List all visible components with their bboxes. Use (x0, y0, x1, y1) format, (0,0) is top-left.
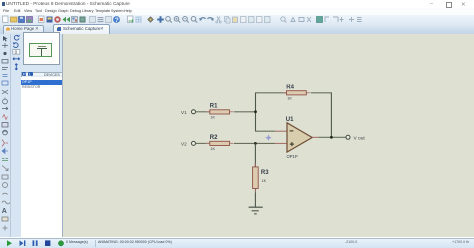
schematic area (63, 34, 474, 238)
wire feedback vertical left (255, 92, 257, 130)
terminal V1 (181, 109, 196, 114)
node A junction (254, 110, 257, 113)
wire R2 to node B (234, 142, 275, 144)
pin U1 output (312, 136, 318, 138)
minimap (23, 32, 61, 66)
origin marker (265, 134, 271, 140)
tab bar (0, 24, 474, 35)
op-amp U1 (286, 117, 312, 159)
svg-text:R1: R1 (210, 103, 218, 109)
svg-text:1K: 1K (210, 146, 215, 150)
svg-text:R3: R3 (261, 169, 269, 175)
toolbar (0, 15, 474, 26)
resistor R2 (206, 135, 234, 151)
left tool strip (0, 34, 11, 238)
resistor R4 (283, 84, 311, 100)
splitter (62, 34, 64, 238)
wire to inverting input (255, 130, 275, 132)
status bar (0, 238, 474, 248)
device list (21, 77, 62, 237)
terminal V2 (181, 141, 196, 146)
svg-text:1K: 1K (210, 115, 215, 119)
resistor R1 (206, 103, 234, 119)
svg-text:R2: R2 (210, 135, 218, 141)
svg-text:V out: V out (354, 135, 366, 141)
node B junction (254, 142, 257, 145)
svg-text:V2: V2 (181, 141, 187, 146)
svg-text:V1: V1 (181, 109, 187, 114)
wire V2 to R2 (196, 142, 210, 144)
output node junction (330, 135, 333, 138)
svg-text:U1: U1 (286, 117, 294, 123)
menu bar (0, 8, 474, 15)
svg-text:1K: 1K (287, 96, 292, 100)
wire V1 to R1 (196, 110, 210, 112)
svg-text:?: ? (115, 17, 119, 24)
terminal V out (346, 135, 365, 141)
resistor R3 (253, 162, 270, 192)
svg-text:A: A (2, 208, 7, 215)
pin U1 inverting input (275, 130, 287, 132)
devices header (21, 72, 64, 80)
title bar (0, 0, 474, 8)
svg-text:1K: 1K (262, 178, 267, 182)
wire R1 to node A (234, 110, 256, 112)
wire node A to R4 (255, 91, 287, 93)
pin U1 non-inverting input (275, 142, 287, 144)
svg-text:R4: R4 (286, 84, 294, 90)
wire R3 to ground (254, 192, 256, 207)
orientation controls (11, 34, 22, 80)
wire node B to R3 (254, 143, 256, 167)
wire R4 to output node (311, 91, 332, 93)
ground (249, 207, 263, 214)
wire output to terminal (319, 136, 346, 138)
svg-text:OP1P: OP1P (287, 154, 298, 159)
